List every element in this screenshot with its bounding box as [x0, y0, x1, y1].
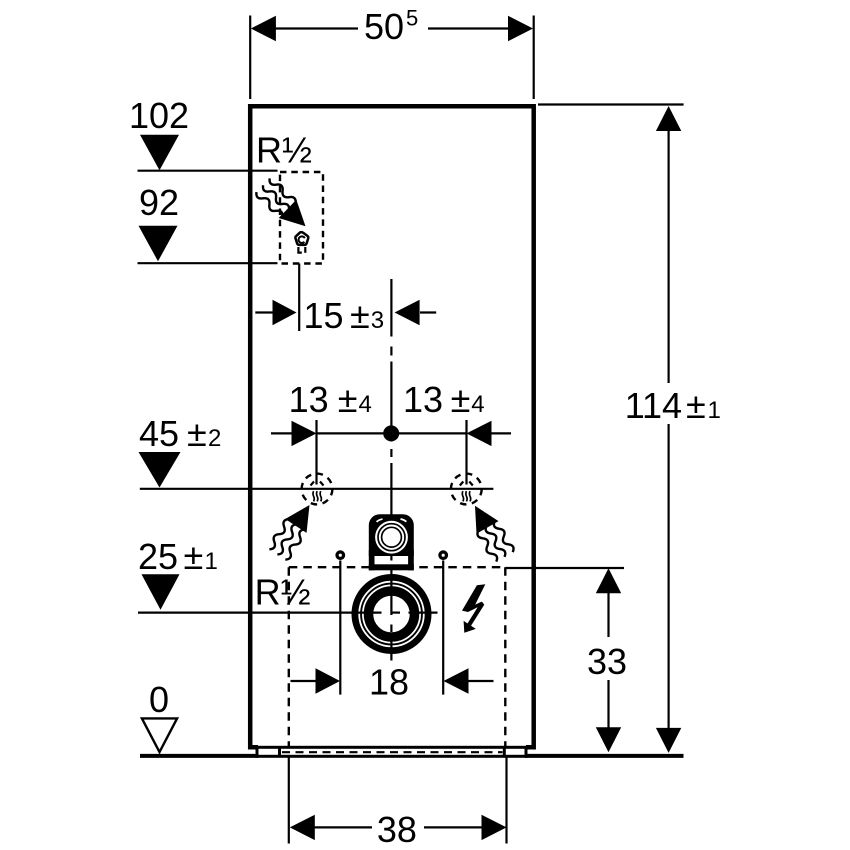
extension line left 18 [339, 561, 341, 695]
svg-text:±: ± [187, 413, 207, 454]
dimension 15±3: left arrow [255, 300, 296, 325]
center line vertical [390, 279, 392, 661]
screw dot left [335, 550, 345, 560]
foot bar [257, 746, 526, 757]
squiggle arrow left mid [267, 498, 320, 561]
level triangle 25 [142, 574, 180, 610]
svg-text:50: 50 [364, 6, 404, 47]
drop line from water supply box [298, 264, 300, 332]
dimension 13±4: middle line [317, 432, 467, 434]
svg-text:0: 0 [149, 679, 169, 720]
label 45±2 [139, 413, 221, 454]
dashed circle left [302, 474, 333, 505]
lightning bolt [462, 584, 485, 633]
svg-text:15: 15 [304, 295, 344, 336]
icon in dashed circle left [311, 482, 324, 502]
extension line left 38 [288, 757, 290, 844]
dimension 50.5: left arrow [251, 16, 358, 41]
svg-text:114: 114 [625, 385, 682, 426]
svg-text:2: 2 [208, 425, 221, 452]
squiggle arrow water supply [254, 176, 314, 235]
extension line right 18 [442, 561, 444, 695]
extension line left 13 [315, 420, 317, 485]
svg-text:18: 18 [369, 662, 409, 703]
center dot node [383, 425, 399, 441]
panel outline [250, 106, 534, 747]
svg-text:1: 1 [205, 548, 218, 575]
dimension 38: right arrow [424, 815, 507, 840]
dimension 50.5: label [364, 6, 418, 48]
label 25±1 [138, 536, 218, 577]
svg-text:4: 4 [471, 391, 484, 418]
svg-text:92: 92 [139, 182, 179, 223]
svg-text:13: 13 [403, 379, 443, 420]
svg-text:45: 45 [139, 413, 179, 454]
svg-text:±: ± [451, 379, 471, 420]
dimension 50.5: extension line right [533, 16, 535, 100]
zero level open triangle [142, 718, 177, 752]
svg-text:5: 5 [406, 6, 418, 31]
dimension 18: left arrow [291, 668, 341, 693]
level line 45 [140, 488, 494, 490]
extension line top 114 [538, 103, 684, 105]
dimension 13±4: left arrow with tail [271, 421, 317, 446]
svg-text:±: ± [350, 295, 370, 336]
dashed circle right [451, 474, 482, 505]
dimension 114±1: top arrow [656, 106, 681, 383]
svg-text:4: 4 [359, 391, 372, 418]
svg-text:1: 1 [708, 397, 721, 424]
big circle water outlet [355, 577, 428, 650]
dimension 38: left arrow [290, 815, 372, 840]
icon in dashed circle right [460, 482, 473, 502]
svg-text:13: 13 [289, 379, 329, 420]
svg-text:±: ± [686, 385, 706, 426]
ground line left [140, 754, 259, 758]
dimension 15±3: label [304, 295, 385, 336]
squiggle arrow right mid [464, 499, 515, 563]
level line 92 [138, 262, 278, 264]
dashed box water supply [280, 172, 323, 264]
level triangle 102 [140, 135, 179, 171]
dimension 33: bottom arrow [596, 680, 621, 752]
keyhole bracket [369, 514, 414, 570]
dimension 50.5: extension line left [249, 16, 251, 100]
dimension 114±1: label [625, 385, 721, 426]
level line 102 [138, 170, 278, 172]
dimension 33: top arrow [596, 568, 621, 637]
dimension 13±4 left label [289, 379, 372, 420]
extension line right 38 [505, 757, 507, 844]
svg-text:3: 3 [371, 307, 384, 334]
extension line top 33 [505, 567, 624, 569]
level triangle 92 [139, 226, 178, 261]
svg-text:33: 33 [587, 641, 627, 682]
screw dot right [438, 550, 448, 560]
dimension 18: right arrow [444, 668, 494, 693]
svg-text:R½: R½ [255, 572, 311, 613]
big dashed rectangle [289, 567, 506, 757]
svg-text:25: 25 [138, 536, 178, 577]
svg-text:R½: R½ [256, 130, 312, 171]
dimension 13±4 right label [403, 379, 485, 420]
dimension 15±3: right arrow [395, 300, 437, 325]
svg-text:±: ± [184, 536, 204, 577]
dimension 114±1: bottom arrow [656, 424, 681, 753]
svg-text:±: ± [338, 379, 358, 420]
level triangle 45 [139, 452, 181, 488]
dimension 13±4: right arrow with tail [467, 421, 512, 446]
extension line right 13 [465, 420, 467, 485]
svg-text:38: 38 [377, 809, 417, 850]
level line 25 / crosshair horizontal [138, 611, 438, 613]
ground line right [525, 754, 684, 758]
dimension 50.5: right arrow [428, 16, 533, 41]
tap icon [295, 232, 308, 253]
svg-text:102: 102 [129, 95, 189, 136]
